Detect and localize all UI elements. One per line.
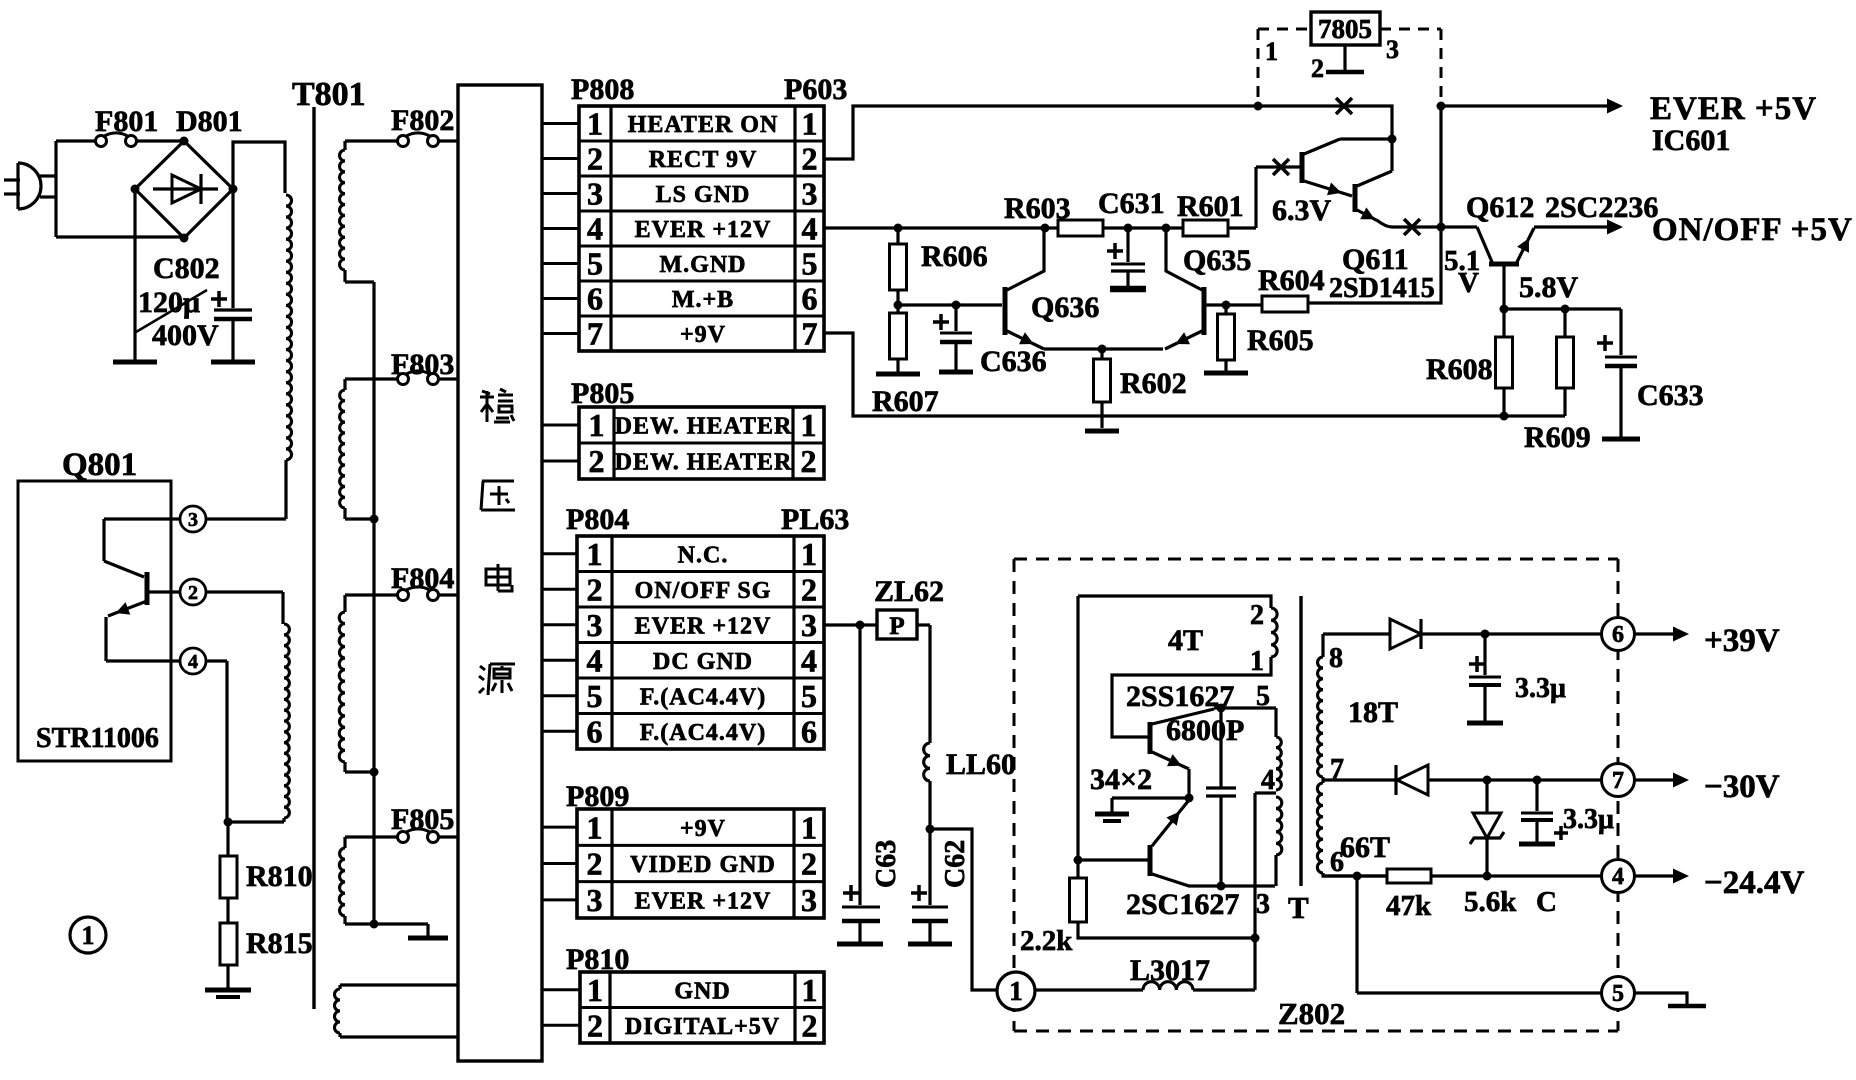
svg-text:Q635: Q635 [1183,244,1251,277]
svg-text:2: 2 [802,1007,818,1043]
svg-text:F805: F805 [391,803,454,836]
svg-text:2: 2 [587,846,603,882]
svg-text:DEW. HEATER: DEW. HEATER [615,414,793,440]
svg-text:1: 1 [801,809,817,845]
svg-text:2: 2 [587,141,603,177]
svg-text:2SS1627: 2SS1627 [1126,680,1234,713]
svg-text:7: 7 [1330,754,1344,785]
svg-text:+9V: +9V [680,322,726,348]
svg-text:5: 5 [1612,981,1624,1007]
svg-text:P805: P805 [571,377,634,410]
svg-text:1: 1 [587,536,603,572]
svg-text:7: 7 [802,316,818,352]
svg-text:2: 2 [801,571,817,607]
svg-text:8: 8 [1329,643,1343,674]
svg-text:7805: 7805 [1318,14,1372,44]
svg-text:3: 3 [801,607,817,643]
svg-text:34×2: 34×2 [1090,763,1152,796]
svg-text:2SC2236: 2SC2236 [1545,191,1658,224]
svg-text:1: 1 [1250,646,1264,677]
svg-text:Q611: Q611 [1342,243,1409,276]
svg-text:T: T [1288,890,1309,925]
svg-text:6: 6 [1612,622,1624,648]
svg-text:EVER +12V: EVER +12V [635,217,772,243]
svg-text:18T: 18T [1348,696,1398,729]
svg-text:P: P [889,613,904,640]
svg-text:4T: 4T [1168,624,1203,657]
svg-text:3: 3 [188,509,198,531]
svg-text:3: 3 [1386,35,1399,64]
svg-text:5: 5 [802,246,818,282]
svg-text:F803: F803 [391,348,454,381]
svg-text:M.GND: M.GND [660,252,747,278]
svg-text:1: 1 [589,407,605,443]
svg-text:2: 2 [188,582,198,604]
svg-text:7: 7 [587,316,603,352]
svg-text:3: 3 [801,882,817,918]
svg-text:DIGITAL+5V: DIGITAL+5V [625,1014,780,1040]
svg-text:5: 5 [587,246,603,282]
svg-text:6: 6 [587,281,603,317]
svg-text:−30V: −30V [1704,769,1780,805]
svg-text:C636: C636 [980,345,1047,378]
svg-text:2.2k: 2.2k [1020,925,1073,957]
svg-text:C: C [1536,886,1557,918]
svg-text:F801: F801 [95,105,158,138]
svg-text:HEATER ON: HEATER ON [628,112,779,138]
svg-text:C802: C802 [153,252,220,285]
svg-text:5: 5 [801,678,817,714]
svg-text:2: 2 [587,1007,603,1043]
svg-text:ZL62: ZL62 [874,575,944,608]
svg-text:3.3μ: 3.3μ [1515,673,1566,704]
svg-text:F804: F804 [391,562,454,595]
svg-text:2SD1415: 2SD1415 [1329,273,1435,304]
svg-text:6800P: 6800P [1166,714,1244,747]
svg-text:V: V [1458,267,1479,299]
svg-text:R606: R606 [921,240,988,273]
svg-text:Q636: Q636 [1031,291,1099,324]
svg-text:C63: C63 [871,840,902,888]
svg-text:−24.4V: −24.4V [1704,865,1805,901]
svg-text:1: 1 [587,106,603,142]
svg-text:Q801: Q801 [62,447,137,483]
svg-text:3: 3 [802,176,818,212]
svg-text:ON/OFF +5V: ON/OFF +5V [1652,212,1853,248]
svg-text:2: 2 [1311,54,1324,83]
svg-text:3.3μ: 3.3μ [1563,804,1614,835]
svg-text:2: 2 [801,846,817,882]
svg-text:R609: R609 [1524,421,1591,454]
svg-text:6.3V: 6.3V [1272,194,1332,227]
svg-text:5: 5 [1256,681,1270,712]
svg-text:5: 5 [587,678,603,714]
svg-text:LS GND: LS GND [656,182,751,208]
svg-text:N.C.: N.C. [678,542,729,568]
svg-text:R601: R601 [1177,190,1244,223]
svg-text:47k: 47k [1386,890,1432,922]
svg-text:PL63: PL63 [781,503,849,536]
svg-text:F.(AC4.4V): F.(AC4.4V) [640,684,766,710]
svg-text:4: 4 [587,211,603,247]
svg-text:2SC1627: 2SC1627 [1126,888,1239,921]
svg-text:3: 3 [587,176,603,212]
svg-text:6: 6 [1330,847,1344,878]
svg-text:GND: GND [674,978,730,1004]
svg-text:1: 1 [1009,976,1023,1006]
svg-text:2: 2 [1250,600,1264,631]
svg-text:VIDED GND: VIDED GND [630,852,776,878]
svg-text:EVER +12V: EVER +12V [635,888,772,914]
svg-text:6: 6 [587,713,603,749]
svg-text:4: 4 [188,651,198,673]
svg-text:1: 1 [82,921,95,950]
svg-text:EVER +12V: EVER +12V [635,613,772,639]
svg-text:R602: R602 [1120,367,1187,400]
svg-text:7: 7 [1612,768,1624,794]
svg-text:2: 2 [802,141,818,177]
svg-text:Z802: Z802 [1278,996,1345,1031]
svg-text:1: 1 [587,809,603,845]
svg-text:IC601: IC601 [1652,124,1730,157]
svg-text:P804: P804 [566,503,629,536]
svg-text:Q612: Q612 [1466,191,1534,224]
svg-text:2: 2 [587,571,603,607]
svg-text:C631: C631 [1098,187,1165,220]
svg-text:C633: C633 [1637,379,1704,412]
svg-text:6: 6 [802,281,818,317]
svg-text:RECT 9V: RECT 9V [649,147,758,173]
svg-text:+39V: +39V [1704,623,1780,659]
svg-text:120μ: 120μ [138,286,200,319]
svg-text:1: 1 [802,106,818,142]
svg-text:R810: R810 [246,860,313,893]
svg-text:F.(AC4.4V): F.(AC4.4V) [640,720,766,746]
svg-text:1: 1 [1265,37,1278,66]
svg-text:M.+B: M.+B [672,287,734,313]
svg-text:R603: R603 [1004,192,1071,225]
svg-text:R608: R608 [1426,353,1493,386]
svg-text:1: 1 [587,972,603,1008]
svg-text:DEW. HEATER: DEW. HEATER [615,450,793,476]
svg-text:5.6k: 5.6k [1464,886,1517,918]
svg-text:2: 2 [589,443,605,479]
svg-text:T801: T801 [292,76,366,113]
svg-text:5.8V: 5.8V [1519,271,1579,304]
svg-text:3: 3 [587,607,603,643]
svg-text:+9V: +9V [680,816,726,842]
svg-text:ON/OFF SG: ON/OFF SG [635,578,772,604]
svg-text:P603: P603 [784,73,847,106]
svg-text:L3017: L3017 [1130,954,1210,987]
svg-text:4: 4 [802,211,818,247]
svg-text:C62: C62 [940,840,971,888]
svg-text:F802: F802 [391,104,454,137]
svg-text:4: 4 [801,642,817,678]
svg-text:R604: R604 [1258,264,1325,297]
svg-text:1: 1 [801,536,817,572]
svg-text:DC GND: DC GND [653,649,753,675]
svg-text:LL60: LL60 [946,748,1016,781]
svg-text:STR11006: STR11006 [36,723,159,754]
svg-text:4: 4 [1261,765,1275,796]
svg-text:R607: R607 [872,385,939,418]
svg-text:R605: R605 [1247,324,1314,357]
svg-text:2: 2 [801,443,817,479]
svg-text:66T: 66T [1340,831,1390,864]
svg-text:3: 3 [1256,889,1270,920]
svg-text:P808: P808 [571,73,634,106]
svg-text:4: 4 [1612,864,1624,890]
svg-text:1: 1 [802,972,818,1008]
svg-text:4: 4 [587,642,603,678]
svg-text:6: 6 [801,713,817,749]
svg-text:R815: R815 [246,927,313,960]
svg-text:D801: D801 [176,105,243,138]
svg-text:3: 3 [587,882,603,918]
svg-text:1: 1 [801,407,817,443]
svg-text:EVER +5V: EVER +5V [1650,91,1817,127]
svg-text:400V: 400V [152,319,219,352]
